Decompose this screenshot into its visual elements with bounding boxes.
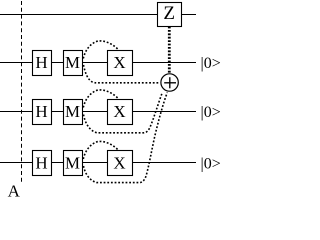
svg-text:A: A: [8, 181, 21, 197]
measurement M1: [64, 51, 83, 76]
gate H3: [33, 151, 52, 176]
wire q2 H to M: [51, 111, 63, 113]
gate X3: [108, 151, 133, 176]
svg-text:M: M: [65, 53, 80, 72]
wire q1 M to X: [82, 62, 107, 64]
measurement M2: [64, 100, 83, 125]
svg-text:X: X: [113, 154, 125, 173]
wire q2 segment left: [0, 111, 32, 113]
node A boundary (dashed vertical axis): [21, 0, 23, 182]
gate X1: [108, 51, 133, 76]
wire top qubit (left segment): [0, 14, 158, 16]
wire q1 H to M: [51, 62, 63, 64]
wire q2 X to output: [132, 111, 196, 113]
wire q3 M to X: [82, 162, 107, 164]
gate Z (box): [158, 3, 182, 27]
wire q3 segment left: [0, 162, 32, 164]
gate H1: [33, 51, 52, 76]
classical dotted wire M2 to parity: [84, 92, 163, 133]
wire q3 H to M: [51, 162, 63, 164]
parity node XOR (circled plus): [161, 74, 178, 91]
svg-text:X: X: [113, 53, 125, 72]
svg-text:M: M: [65, 154, 80, 173]
svg-text:|0>: |0>: [201, 55, 221, 72]
measurement M3: [64, 151, 83, 176]
classical dotted arc M2 to X2: [83, 90, 119, 108]
svg-text:H: H: [35, 102, 47, 121]
wire q1 segment left: [0, 62, 32, 64]
svg-text:X: X: [113, 102, 125, 121]
svg-text:H: H: [35, 154, 47, 173]
classical dotted wire M1 to parity: [84, 65, 160, 83]
svg-text:|0>: |0>: [201, 155, 221, 172]
wire top qubit (right segment): [182, 14, 197, 16]
gate H2: [33, 100, 52, 125]
svg-text:H: H: [35, 53, 47, 72]
classical control wire Z (bold dashed vertical): [168, 27, 171, 74]
classical dotted arc M3 to X3: [83, 141, 119, 159]
wire q2 M to X: [82, 111, 107, 113]
wire q3 X to output: [132, 162, 196, 164]
svg-text:|0>: |0>: [201, 104, 221, 121]
svg-text:Z: Z: [163, 3, 175, 24]
wire q1 X to output: [132, 62, 196, 64]
svg-text:M: M: [65, 102, 80, 121]
classical dotted wire M3 to parity: [84, 93, 168, 183]
gate X2: [108, 100, 133, 125]
classical dotted arc M1 to X1: [83, 41, 119, 59]
